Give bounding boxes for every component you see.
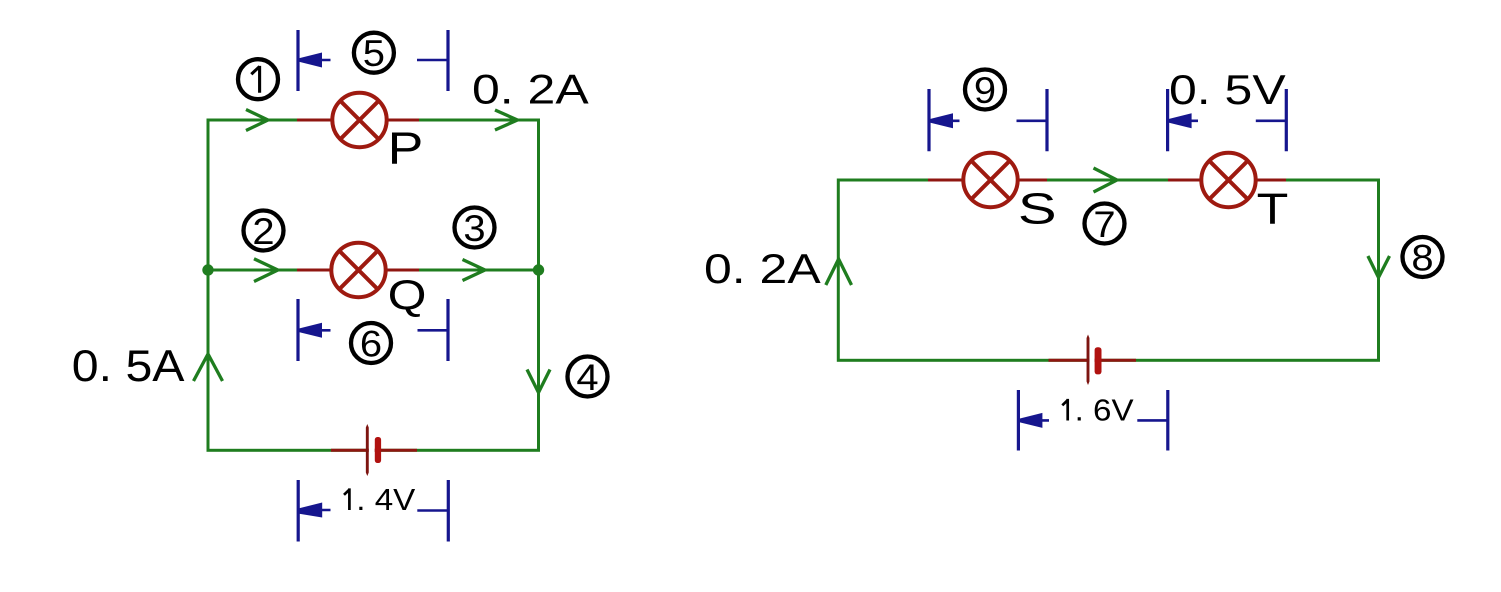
svg-text:4: 4 [576, 357, 598, 398]
svg-text:6: 6 [360, 324, 382, 365]
svg-text:0. 2A: 0. 2A [472, 65, 589, 112]
svg-text:9: 9 [974, 70, 996, 111]
svg-text:0. 5A: 0. 5A [72, 341, 185, 391]
svg-text:S: S [1018, 183, 1057, 233]
svg-text:2: 2 [252, 211, 274, 252]
svg-text:Q: Q [388, 271, 427, 318]
svg-text:3: 3 [463, 208, 485, 249]
svg-text:7: 7 [1093, 204, 1115, 245]
svg-text:8: 8 [1411, 238, 1433, 279]
svg-text:. 6V: . 6V [1075, 392, 1135, 427]
svg-text:. 4V: . 4V [356, 482, 416, 517]
svg-text:T: T [1257, 184, 1289, 233]
svg-text:5: 5 [363, 34, 385, 75]
svg-text:0. 2A: 0. 2A [704, 245, 821, 292]
svg-text:P: P [388, 124, 424, 174]
svg-text:0. 5V: 0. 5V [1169, 66, 1286, 113]
